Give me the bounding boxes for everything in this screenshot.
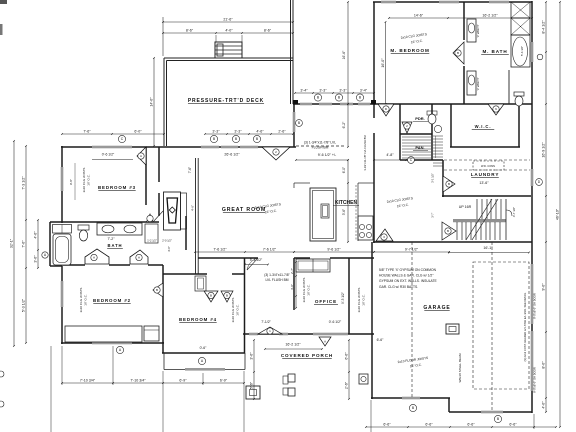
svg-text:6'-6": 6'-6" <box>377 338 385 342</box>
svg-text:4'-0": 4'-0" <box>225 28 233 32</box>
svg-text:7'-6": 7'-6" <box>22 240 26 248</box>
svg-text:9'-0"x8'-0" OH DOOR: 9'-0"x8'-0" OH DOOR <box>533 293 537 319</box>
svg-text:26'-6 1/2": 26'-6 1/2" <box>224 153 240 157</box>
svg-text:9'-0"x8'-0" OH DOOR: 9'-0"x8'-0" OH DOOR <box>533 367 537 393</box>
svg-text:9'-6 1/2" +/-: 9'-6 1/2" +/- <box>318 153 337 157</box>
svg-text:3'-3": 3'-3" <box>339 88 347 92</box>
svg-text:0'-6": 0'-6" <box>200 346 208 350</box>
svg-text:A: A <box>93 256 95 260</box>
svg-text:7'-10 3/4": 7'-10 3/4" <box>80 378 96 382</box>
svg-text:21'-6": 21'-6" <box>223 17 233 21</box>
svg-text:5'-1 1/2": 5'-1 1/2" <box>250 258 263 262</box>
svg-text:(3) 1-3/4"x11-7/8" LVL: (3) 1-3/4"x11-7/8" LVL <box>304 141 336 145</box>
svg-text:4'-6": 4'-6" <box>191 205 195 211</box>
svg-text:7'-6 1/2": 7'-6 1/2" <box>213 247 227 251</box>
svg-text:5'-3 1/2": 5'-3 1/2" <box>22 298 26 312</box>
svg-text:6'-6": 6'-6" <box>383 422 391 426</box>
svg-text:7'-3 1/2": 7'-3 1/2" <box>22 176 26 190</box>
svg-text:(3) 1-3/4"x11-7/8": (3) 1-3/4"x11-7/8" <box>264 273 290 277</box>
svg-text:6'-6": 6'-6" <box>425 422 433 426</box>
svg-text:16'-2 1/2": 16'-2 1/2" <box>285 343 301 347</box>
svg-text:16'-2 1/2": 16'-2 1/2" <box>482 13 498 17</box>
svg-text:7'-10 3/4": 7'-10 3/4" <box>130 378 146 382</box>
svg-text:9'-3 1/2": 9'-3 1/2" <box>341 292 345 304</box>
svg-text:6'-9": 6'-9" <box>179 378 187 382</box>
svg-text:8'-0": 8'-0" <box>542 361 546 369</box>
svg-text:0'-6 1/2": 0'-6 1/2" <box>329 320 342 324</box>
svg-text:3'-6": 3'-6" <box>250 352 254 360</box>
svg-text:16" O.C.: 16" O.C. <box>236 304 240 316</box>
svg-text:16'-6": 16'-6" <box>342 50 346 59</box>
svg-text:4'-0": 4'-0" <box>542 401 546 409</box>
svg-text:4'-7 1/2": 4'-7 1/2" <box>512 207 516 217</box>
svg-text:2'-7": 2'-7" <box>290 268 294 274</box>
svg-text:3'-3": 3'-3" <box>319 88 327 92</box>
svg-text:4'-8": 4'-8" <box>386 153 394 157</box>
svg-text:KITCHEN: KITCHEN <box>335 200 358 206</box>
svg-text:2x10 CLG JOISTS: 2x10 CLG JOISTS <box>357 288 361 313</box>
svg-text:2'-0 1/2": 2'-0 1/2" <box>162 239 172 243</box>
svg-text:8'-4 1/2": 8'-4 1/2" <box>542 20 546 34</box>
svg-text:B: B <box>448 182 450 186</box>
svg-text:14'-0": 14'-0" <box>150 97 154 107</box>
svg-text:16'-9 1/2": 16'-9 1/2" <box>542 142 546 158</box>
svg-text:2x10 CLG JOISTS: 2x10 CLG JOISTS <box>82 168 86 193</box>
svg-text:7'-1/2": 7'-1/2" <box>261 320 271 324</box>
svg-text:7'-2": 7'-2" <box>108 237 116 241</box>
svg-text:LVL FLUSH BM: LVL FLUSH BM <box>265 278 288 282</box>
svg-text:A: A <box>138 256 140 260</box>
svg-text:4'-6": 4'-6" <box>256 129 264 133</box>
svg-text:HOUSE WALLS & GAR. CLG w/ 1/2": HOUSE WALLS & GAR. CLG w/ 1/2" <box>379 274 434 278</box>
svg-text:W.I.C.: W.I.C. <box>475 124 492 129</box>
svg-text:9'-6 1/2": 9'-6 1/2" <box>327 247 341 251</box>
svg-text:6'-0": 6'-0" <box>134 129 142 133</box>
svg-text:6'-6": 6'-6" <box>509 422 517 426</box>
svg-text:BEDROOM #3: BEDROOM #3 <box>98 185 136 190</box>
svg-text:BEDROOM #4: BEDROOM #4 <box>179 317 217 322</box>
svg-text:B: B <box>210 294 212 298</box>
svg-text:7'-6 1/2": 7'-6 1/2" <box>263 247 277 251</box>
svg-text:16" O.C.: 16" O.C. <box>87 174 91 186</box>
svg-text:46'-10": 46'-10" <box>556 208 560 220</box>
svg-text:3'-4": 3'-4" <box>360 88 368 92</box>
svg-text:6'-9": 6'-9" <box>220 378 228 382</box>
svg-text:3'-3": 3'-3" <box>234 129 242 133</box>
svg-text:4'-0": 4'-0" <box>290 284 294 290</box>
svg-text:UP 16R: UP 16R <box>459 205 472 209</box>
svg-text:3'-6": 3'-6" <box>342 209 346 215</box>
svg-text:2'-6": 2'-6" <box>345 381 349 389</box>
svg-text:5'-6": 5'-6" <box>250 381 254 389</box>
svg-text:2x10 CLG JOISTS: 2x10 CLG JOISTS <box>79 288 83 313</box>
svg-text:16" O.C.: 16" O.C. <box>84 294 88 306</box>
svg-text:16" O.C.: 16" O.C. <box>307 284 311 296</box>
svg-text:16'-0": 16'-0" <box>381 58 385 68</box>
svg-text:2'-6": 2'-6" <box>278 129 286 133</box>
svg-text:8'-6": 8'-6" <box>186 28 194 32</box>
svg-text:OFFICE: OFFICE <box>315 299 337 304</box>
svg-text:COVERED PORCH: COVERED PORCH <box>281 353 333 358</box>
svg-text:9'-0": 9'-0" <box>542 283 546 291</box>
svg-text:4'-0": 4'-0" <box>167 246 171 252</box>
svg-text:6'-6": 6'-6" <box>467 422 475 426</box>
svg-text:3'-7": 3'-7" <box>431 212 435 217</box>
svg-text:8'-6": 8'-6" <box>264 28 272 32</box>
svg-text:13'-6": 13'-6" <box>479 181 489 185</box>
svg-text:0'-6 1/2": 0'-6 1/2" <box>102 153 115 157</box>
svg-text:2x10 CLG JOISTS: 2x10 CLG JOISTS <box>231 298 235 323</box>
svg-text:5/8" TYPE 'X' GYPSUM ON COMMON: 5/8" TYPE 'X' GYPSUM ON COMMON <box>379 268 437 272</box>
svg-text:(3) 2x12 CONT. HEADER w/ LSTA9: (3) 2x12 CONT. HEADER w/ LSTA9 EA. END. … <box>523 292 527 361</box>
svg-text:M. BEDROOM: M. BEDROOM <box>390 48 429 53</box>
svg-text:A: A <box>324 340 326 344</box>
svg-text:7'-6": 7'-6" <box>188 167 192 173</box>
svg-text:B: B <box>447 229 449 233</box>
svg-text:6'-6": 6'-6" <box>345 352 349 360</box>
svg-text:B: B <box>226 294 228 298</box>
svg-text:3'-4": 3'-4" <box>300 88 308 92</box>
svg-text:BATH: BATH <box>108 243 123 248</box>
svg-text:1'-2 1/2": 1'-2 1/2" <box>147 239 157 243</box>
svg-text:3-1/2"x11-7/8" LVL FLUSH BM: 3-1/2"x11-7/8" LVL FLUSH BM <box>363 135 367 170</box>
svg-text:7'-6": 7'-6" <box>83 129 91 133</box>
svg-text:GAR. CLG w/ R30 BATTS.: GAR. CLG w/ R30 BATTS. <box>379 285 418 289</box>
svg-text:'3' VANITY: '3' VANITY <box>476 24 480 37</box>
svg-text:16'-1": 16'-1" <box>483 246 493 250</box>
svg-text:3'-6": 3'-6" <box>34 255 38 263</box>
svg-text:3'-1 1/2": 3'-1 1/2" <box>431 173 435 183</box>
svg-text:B: B <box>156 288 158 292</box>
svg-text:14'-6": 14'-6" <box>414 13 424 17</box>
svg-text:16" O.C.: 16" O.C. <box>362 294 366 306</box>
svg-text:GYPSUM ON EXT. WALLS. INSULATE: GYPSUM ON EXT. WALLS. INSULATE <box>379 279 438 283</box>
svg-text:A: A <box>140 154 142 158</box>
svg-text:PDR.: PDR. <box>415 116 425 121</box>
svg-text:W.D. CONN: W.D. CONN <box>481 164 495 168</box>
svg-text:LAUNDRY: LAUNDRY <box>471 172 500 177</box>
svg-text:'3' VANITY: '3' VANITY <box>476 77 480 90</box>
svg-text:6'-2": 6'-2" <box>342 121 346 129</box>
svg-text:BEDROOM #2: BEDROOM #2 <box>93 298 131 303</box>
svg-text:M. BATH: M. BATH <box>482 49 507 54</box>
svg-text:W8x18 STEEL BEAM: W8x18 STEEL BEAM <box>458 353 462 382</box>
svg-text:5'-6 1/2": 5'-6 1/2" <box>520 46 524 56</box>
svg-text:4'-6": 4'-6" <box>34 231 38 239</box>
svg-text:32'-1": 32'-1" <box>10 238 14 248</box>
svg-text:9'-8": 9'-8" <box>69 179 73 185</box>
svg-text:6'-0": 6'-0" <box>342 167 346 173</box>
svg-text:B: B <box>457 51 459 55</box>
svg-text:2x10 CLG JOISTS: 2x10 CLG JOISTS <box>302 278 306 303</box>
svg-text:3'-3": 3'-3" <box>212 129 220 133</box>
